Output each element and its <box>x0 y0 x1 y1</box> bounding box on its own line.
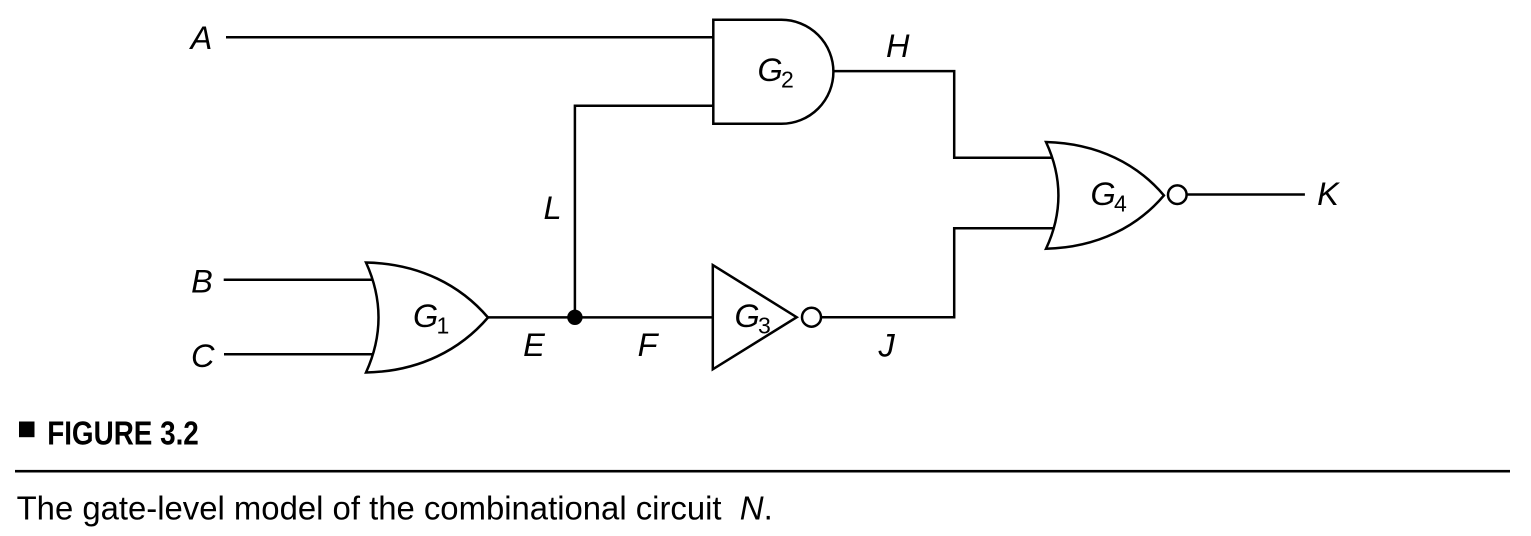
svg-text:K: K <box>1317 176 1340 212</box>
svg-text:4: 4 <box>1114 191 1127 217</box>
svg-text:FIGURE 3.2: FIGURE 3.2 <box>47 415 199 452</box>
svg-text:The gate-level model of the co: The gate-level model of the combinationa… <box>17 489 722 526</box>
svg-text:N.: N. <box>740 490 773 527</box>
svg-text:F: F <box>638 327 660 363</box>
svg-text:G: G <box>1091 176 1116 212</box>
svg-text:G: G <box>413 298 438 334</box>
svg-text:3: 3 <box>758 313 771 339</box>
svg-text:H: H <box>886 28 910 64</box>
svg-text:B: B <box>191 263 213 299</box>
svg-text:L: L <box>543 190 561 226</box>
svg-text:G: G <box>758 52 783 88</box>
svg-text:2: 2 <box>781 67 794 93</box>
svg-text:G: G <box>735 298 760 334</box>
svg-text:J: J <box>877 327 895 363</box>
svg-text:1: 1 <box>437 313 450 339</box>
svg-text:A: A <box>189 20 213 56</box>
svg-text:C: C <box>191 338 215 374</box>
svg-text:E: E <box>523 327 545 363</box>
